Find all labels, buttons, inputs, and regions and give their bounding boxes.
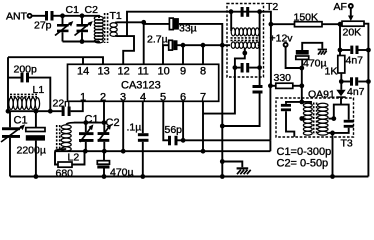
bus 2.7u / pin9 / pin8 to T2 secondary <box>178 44 231 46</box>
capacitor 2.7u with pin 10 <box>147 34 178 65</box>
diode OA91 <box>308 89 346 105</box>
wire node to C2 node <box>63 15 83 17</box>
wire 33u to rail corner <box>179 24 222 45</box>
node ground symbol tap <box>220 159 225 164</box>
ground (top right) <box>318 49 327 55</box>
T2 secondary center tap <box>235 49 245 68</box>
node pin 7 <box>201 149 206 154</box>
rail T3 to bottom rail <box>332 133 334 177</box>
svg-text:ANT: ANT <box>6 11 28 23</box>
svg-text:27p: 27p <box>34 20 52 32</box>
wire 27p to C1 node <box>54 15 63 17</box>
node 330 left <box>268 83 273 88</box>
T2 primary winding <box>231 28 235 36</box>
capacitor 200p <box>8 64 50 112</box>
node pin 8 <box>201 43 206 48</box>
node .1u bottom <box>140 174 145 179</box>
svg-text:8: 8 <box>200 66 206 78</box>
wire C1/C2 bottom rail to T1 primary bottom <box>63 40 100 43</box>
T2 secondary right end <box>258 44 260 46</box>
node T3 bottom <box>330 131 335 136</box>
wire L1 row <box>8 110 62 112</box>
node 4n7 left <box>338 48 343 53</box>
capacitor 470u (bottom) <box>97 151 133 178</box>
node 2200u <box>34 109 39 114</box>
svg-text:4n7: 4n7 <box>347 86 365 98</box>
node 680/C1 on ground wire <box>83 149 88 154</box>
node left rail / L1 <box>6 109 11 114</box>
inductor L1 <box>9 84 45 109</box>
svg-text:CA3123: CA3123 <box>121 80 161 92</box>
node pin2/C2 <box>102 120 107 125</box>
wire C2 node to T1 top <box>82 16 99 18</box>
svg-text:2200µ: 2200µ <box>17 145 46 157</box>
node T3 mid tap <box>299 116 304 121</box>
top supply rail from pin 12 to T2 <box>127 12 271 37</box>
T2 primary left lead <box>230 12 232 31</box>
node T2 top right <box>257 9 262 14</box>
T3 secondary winding <box>318 103 328 107</box>
T3 core <box>313 103 315 136</box>
T2 core <box>231 37 259 39</box>
svg-text:13: 13 <box>98 66 110 78</box>
center ground rail <box>221 45 223 176</box>
pin 6 stub <box>182 101 184 140</box>
capacitor 56p <box>165 124 183 145</box>
bottom ground rail <box>10 176 368 178</box>
svg-text:10: 10 <box>158 66 170 78</box>
capacitor T3 right <box>344 120 354 128</box>
node T2 tap <box>242 51 247 56</box>
svg-text:4n7: 4n7 <box>346 55 364 67</box>
capacitor 470u (decoupling) <box>296 43 327 70</box>
node pin 3 ground <box>121 149 126 154</box>
trimmer capacitor C1 (bottom) <box>79 114 99 152</box>
ground wire (oscillator/emitter row) <box>55 150 270 152</box>
capacitor 4n7 (first) <box>340 46 368 67</box>
trimmer capacitor C2 (top) <box>75 4 99 42</box>
wire pin 11 <box>143 22 145 64</box>
trimmer capacitor C2 (bottom) <box>98 117 120 151</box>
svg-text:T1: T1 <box>110 10 122 22</box>
wire diode to T3 secondary <box>334 105 349 120</box>
pin 2 stub <box>103 101 105 122</box>
capacitor T2 bottom <box>235 63 260 73</box>
svg-text:AF: AF <box>334 1 347 13</box>
node C2 bottom / 470u top <box>102 149 107 154</box>
node T2 right wire on center rail <box>220 124 225 129</box>
ground wire right end jog <box>269 140 271 151</box>
capacitor (series, below T2) <box>253 85 263 94</box>
wire T3 primary top <box>302 102 311 105</box>
wire T2 right down to center rail <box>222 94 259 127</box>
node T2 top left <box>229 9 234 14</box>
capacitor .1u with pin 4 <box>127 101 149 176</box>
node pot left rail <box>338 22 343 27</box>
svg-text:680: 680 <box>56 168 74 180</box>
pin 5 wire <box>163 101 168 140</box>
T2 secondary winding <box>231 42 235 48</box>
capacitor 33u <box>169 18 196 34</box>
+12v supply terminal <box>270 33 294 47</box>
svg-text:.1µ: .1µ <box>127 122 142 134</box>
svg-text:+12v: +12v <box>270 33 294 45</box>
inductor L2 <box>55 123 79 164</box>
svg-text:11: 11 <box>138 66 149 78</box>
node C2 top <box>80 13 85 18</box>
node 2200u bottom <box>34 174 39 179</box>
node pin6/56p <box>181 138 186 143</box>
svg-text:C2= 0-50p: C2= 0-50p <box>277 158 329 170</box>
potentiometer 20K <box>342 8 364 38</box>
wire 680 right to ground wire <box>72 151 85 164</box>
pin 9 stub <box>182 45 184 64</box>
wire pot right to right rail <box>364 24 368 177</box>
resistor 150K <box>271 12 342 27</box>
wire node to 33u <box>144 23 170 25</box>
transformer T2 (dashed shield box) <box>227 1 278 77</box>
svg-text:22n: 22n <box>53 98 71 110</box>
node T2 bottom cap right <box>257 65 262 70</box>
node 1K bottom <box>339 79 344 84</box>
capacitor T3 left <box>281 102 302 137</box>
T3 tap stub <box>302 118 306 120</box>
capacitor T2 top <box>241 7 250 17</box>
capacitor 27p <box>34 11 54 32</box>
pin 3 stub to ground wire <box>122 101 124 151</box>
svg-text:9: 9 <box>180 66 186 78</box>
wire T1 secondary bottom <box>115 36 134 65</box>
ANT terminal <box>6 11 32 23</box>
capacitor 2200u <box>17 111 46 176</box>
node 330 right <box>299 83 304 88</box>
svg-text:12: 12 <box>118 66 130 78</box>
pin 8 stub <box>202 45 204 64</box>
svg-text:56p: 56p <box>165 124 183 136</box>
transformer T1 <box>94 10 122 43</box>
svg-text:L1: L1 <box>33 84 45 96</box>
wire L2 bottom to 680 <box>55 151 58 164</box>
node C1 top (bottom section) <box>83 120 88 125</box>
AF output terminal <box>334 1 353 13</box>
node 4n7 second right <box>366 79 371 84</box>
node pin11/33u <box>141 20 146 25</box>
T2 right vertical wire <box>259 12 261 85</box>
trimmer capacitor C1 (top) <box>55 4 79 42</box>
svg-text:330: 330 <box>274 72 292 84</box>
resistor 1K <box>325 56 345 90</box>
node T2 bottom cap left <box>233 65 238 70</box>
wire 56p row to right <box>178 139 271 141</box>
node T3 top <box>299 100 304 105</box>
svg-text:C1=0-300p: C1=0-300p <box>277 146 332 158</box>
node 470u bottom <box>102 174 107 179</box>
node T3 rail bottom <box>330 174 335 179</box>
wire pin 13 / pin 14 strap to 200p <box>8 57 103 64</box>
node pin 9 <box>181 43 186 48</box>
wire T3 cap bottom to rail <box>333 128 349 133</box>
capacitor 4n7 (second) <box>341 77 368 98</box>
rail 340 down <box>339 24 341 55</box>
node ground rail top <box>220 43 225 48</box>
rail 470u down to T3 <box>301 68 303 102</box>
svg-text:T3: T3 <box>341 138 353 150</box>
wire T1 secondary top to pin 11 node <box>115 21 144 23</box>
node 150K left <box>269 22 274 27</box>
left rail down from 200p wire <box>7 57 9 111</box>
op-amp U1 CA3123 IC box <box>68 64 219 103</box>
svg-text:T2: T2 <box>266 1 278 13</box>
node T3 secondary tap <box>331 116 336 121</box>
rail 270 from 150K down to 56p wire <box>270 24 272 86</box>
stub secondary bottom <box>329 132 333 134</box>
resistor 330 <box>270 72 301 88</box>
resistor 680 <box>56 162 74 180</box>
T3 primary winding <box>303 103 312 107</box>
wire +12v to node <box>286 47 302 68</box>
capacitor 22n <box>53 98 83 117</box>
node 200p drop <box>48 109 53 114</box>
svg-text:20K: 20K <box>343 27 362 39</box>
pin 14 stub <box>82 57 84 64</box>
svg-text:470µ: 470µ <box>303 58 327 70</box>
oscillator top wire (pin 2) <box>74 122 107 124</box>
stub tap to winding <box>329 118 334 120</box>
node C1 top <box>60 13 65 18</box>
svg-text:C2: C2 <box>85 4 99 16</box>
wire pin 7 branch to T2 bottom cap <box>203 68 235 114</box>
wire ANT to 27p <box>32 15 45 17</box>
svg-text:200p: 200p <box>14 64 38 76</box>
svg-text:2.7µ: 2.7µ <box>147 34 168 46</box>
svg-text:C1: C1 <box>14 115 28 127</box>
node 4n7 right <box>366 48 371 53</box>
transformer T3 (dashed shield box) <box>276 98 354 150</box>
svg-text:14: 14 <box>77 66 89 78</box>
node C2 bottom <box>80 39 85 44</box>
svg-text:C1: C1 <box>66 4 80 16</box>
node bottom rail / center rail <box>220 174 225 179</box>
variable capacitor C1 (main tuning, bottom left) <box>1 111 28 176</box>
ground <box>222 162 250 175</box>
pin 7 stub to ground wire <box>202 101 204 151</box>
node +12v/470u <box>299 66 304 71</box>
